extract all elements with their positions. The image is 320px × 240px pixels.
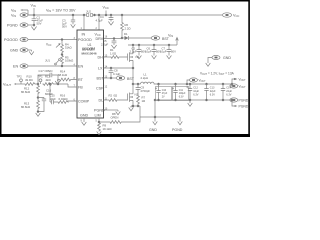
svg-text:6.04kΩ: 6.04kΩ [59,97,68,101]
svg-text:MAX15046: MAX15046 [82,52,97,56]
svg-text:C17: C17 [39,69,45,73]
svg-text:68.1kΩ: 68.1kΩ [58,73,67,77]
svg-text:LX: LX [98,67,103,71]
svg-text:PGOOD: PGOOD [78,38,92,42]
node R4/R5 junction [61,54,63,56]
svg-text:2V: 2V [162,95,165,98]
svg-text:VIN: VIN [11,14,16,19]
ground at GND terminal [29,50,34,55]
capacitor C9 snubber [136,84,141,95]
svg-text:49.9Ω: 49.9Ω [25,78,33,82]
terminal EN left [20,64,77,68]
ground at N2 source [129,106,134,111]
svg-text:10pF: 10pF [50,97,57,101]
box optional C11 [173,87,189,101]
wire DL line [104,99,109,101]
capacitor C13 [206,83,208,85]
svg-text:JU1: JU1 [45,59,50,63]
transistor N1 [128,45,134,68]
node DRV/D1 junction [121,37,123,39]
svg-text:OPEN: OPEN [45,69,53,73]
diode D1 [122,37,125,39]
svg-text:N1: N1 [136,55,140,59]
capacitor C10 [158,83,160,85]
capacitor C1 [32,15,37,25]
svg-text:PGND: PGND [239,105,249,109]
box optional C10 [156,87,172,101]
border frame [1,1,249,136]
svg-text:N2: N2 [135,93,139,97]
svg-text:LIM: LIM [95,114,101,118]
wire LX line [104,67,134,69]
resistor R16 [57,101,77,104]
capacitor C2 [138,44,140,46]
svg-text:6.3V: 6.3V [179,95,184,98]
node VOUT rail end [231,83,233,85]
svg-text:GND: GND [10,49,19,53]
svg-text:TP1: TP1 [38,75,44,79]
terminal VCC top right [222,13,231,17]
wire VOUT rail [157,83,232,85]
test point TP1 [39,79,42,84]
svg-text:VIN: VIN [31,4,36,9]
wire FB pin [68,84,77,87]
svg-text:2.2µF: 2.2µF [101,43,108,47]
resistor R12 [37,84,40,98]
node EN junction [61,65,63,67]
svg-text:IN: IN [82,33,86,37]
capacitor C7 [168,44,170,46]
capacitor C12 [189,83,191,85]
ground below C4 [108,22,113,26]
resistor R4 pullup [61,39,64,54]
node feedback divider junction [37,83,39,85]
resistor R13 [37,98,40,114]
svg-text:OPEN: OPEN [111,115,119,119]
terminal PGND right [230,98,238,102]
resistor R11 [43,83,69,86]
svg-text:50V: 50V [37,22,42,26]
svg-text:1.0Ω: 1.0Ω [110,52,116,56]
svg-text:EN: EN [13,65,18,69]
svg-text:GND: GND [80,114,89,118]
resistor R6 [121,14,123,16]
svg-text:GND: GND [149,128,157,132]
wire GND pin bottom [83,118,85,122]
node IN rail junction [83,14,85,16]
capacitor C4 [110,14,112,16]
svg-text:10µF: 10µF [145,50,152,54]
svg-text:FB: FB [78,86,83,90]
svg-text:PGND: PGND [94,109,105,113]
VIN net flag arrow [176,38,179,46]
svg-text:BST: BST [97,77,105,81]
svg-text:86.6kΩ: 86.6kΩ [21,90,30,94]
svg-text:DL: DL [99,99,104,103]
node VOUT TP junction [186,83,188,85]
net flag oval VOUT mid [187,78,198,84]
svg-text:6.3V: 6.3V [193,93,198,96]
node after JU2 [94,14,96,16]
ground below R13 [36,113,41,116]
border frame bottom thick [0,134,250,137]
wire BST pin [104,77,117,79]
svg-text:RT: RT [78,78,84,82]
node VIN input junction [33,14,35,16]
wire IN pin drop [83,15,85,30]
ground below C3 [71,24,76,27]
ground GND star [153,117,158,125]
svg-text:JU2: JU2 [86,10,91,14]
svg-text:2.2µF: 2.2µF [130,50,137,54]
svg-text:VIN = 18V TO 36V: VIN = 18V TO 36V [46,9,76,14]
snubber node [137,83,139,85]
ground below C5 [111,45,116,49]
svg-text:6.3V: 6.3V [210,93,215,96]
ground below C6 [152,54,157,59]
svg-text:0.1µF: 0.1µF [113,72,120,76]
wire PGND sense arrow [232,100,236,106]
ground at GND jack [206,63,211,66]
wire PGND pin [104,109,119,111]
svg-text:D1: D1 [124,32,128,36]
svg-text:VOUT: VOUT [3,83,12,88]
svg-text:19.1kΩ: 19.1kΩ [103,127,112,131]
resistor R14 RT [58,78,78,81]
terminal PGND left [20,23,28,27]
node VCC label tick [105,14,107,16]
svg-text:VCC: VCC [233,14,239,19]
VCC annotation arrow [56,44,60,47]
capacitor C17 bridge [38,73,58,84]
wire VOUT feedback left [15,83,24,85]
svg-text:51kΩ: 51kΩ [65,46,72,50]
ground below output rail [188,100,193,106]
wire cap-ground rail to star [154,100,156,117]
wire PGND input row [28,24,34,26]
wire VIN rail 2 [128,44,177,46]
wire DRV pin [104,38,123,40]
capacitor C15 [50,100,57,104]
svg-text:2700pF: 2700pF [141,89,151,93]
svg-text:DH: DH [98,56,104,60]
IC U1 MAX15046 body [77,30,104,118]
svg-text:PGND: PGND [239,99,249,103]
wire output ground rail [155,99,232,101]
resistor R7 snubber [137,95,140,106]
terminal GND right mid [208,55,220,63]
wire VIN sense arrow [20,9,22,11]
inductor L1 [133,82,157,84]
svg-text:BST: BST [127,77,135,81]
svg-text:4.7µF: 4.7µF [96,19,103,23]
capacitor C3 [72,14,74,16]
wire VCC pin drop [98,15,100,30]
resistor R1 [110,56,128,59]
capacitor C6 [153,44,155,46]
svg-text:2.2µH: 2.2µH [141,76,149,80]
node BST junction [110,77,112,79]
svg-text:50V: 50V [171,50,176,54]
svg-text:COMP: COMP [78,100,90,104]
node LX y84 [132,67,134,69]
jumper JU2 pads [87,14,89,17]
capacitor C11 [175,83,177,85]
ground PGND star [178,117,183,125]
svg-text:CSP: CSP [96,87,104,91]
svg-text:VIN: VIN [11,9,16,14]
node N1 drain [132,44,134,46]
node R12/R13 junction [37,97,39,99]
ground at PGND pin [116,110,121,115]
svg-text:100kΩ: 100kΩ [65,59,73,63]
svg-text:VIN: VIN [168,34,173,39]
node LIM junction [98,121,100,123]
svg-text:0Ω: 0Ω [114,94,118,98]
transistor N2 [128,84,134,106]
ground at GND pin [82,122,87,125]
svg-text:TP2: TP2 [17,75,23,79]
capacitor C16 [38,98,46,112]
terminal VIN left [20,13,34,17]
wire LIM pin bottom [98,118,100,122]
wire down to star ground [139,106,141,117]
ground below R9 [97,132,102,135]
ground below C1 [31,25,36,30]
jumper JU1 [55,59,61,65]
svg-text:4kΩ: 4kΩ [46,78,51,82]
svg-text:EN: EN [78,65,83,69]
svg-text:PGND: PGND [7,24,18,28]
svg-text:6.3V: 6.3V [226,93,231,96]
node C1/PGND junction [33,24,35,26]
capacitor C14 [222,83,224,85]
terminal GND left [20,48,32,52]
wire VIN top rail [22,10,222,15]
wire N2 source / snubber ground tie [131,105,140,107]
svg-text:1Ω: 1Ω [142,99,146,103]
svg-text:GND: GND [223,56,231,60]
svg-text:PGND: PGND [172,128,183,132]
wire LX vertical to output node [132,68,134,84]
svg-text:R2: R2 [109,94,113,98]
test point TP2 [20,79,23,84]
resistor R10 [24,83,38,86]
resistor R9 [98,122,101,132]
svg-text:50V: 50V [62,25,67,29]
svg-text:10µF: 10µF [160,50,167,54]
capacitor C8 [109,68,114,78]
ground at R14 [55,80,60,85]
node LX/C8 junction [110,67,112,69]
terminal VOUT right [230,84,238,88]
svg-text:86.6kΩ: 86.6kΩ [21,105,30,109]
resistor R2 [108,99,128,102]
ground below C2 [137,54,142,59]
capacitor C5 [113,38,115,40]
net flag oval BST lower [116,76,125,80]
resistor R5 [61,55,64,67]
wire DH line [104,56,111,58]
terminal PGOOD left [20,37,77,41]
svg-text:VCC: VCC [103,6,109,11]
net flag oval BST upper [151,36,160,40]
ground below C7 [167,54,172,59]
svg-text:PGOOD: PGOOD [4,38,18,42]
node comp branch [49,83,51,85]
resistor R8 OPEN [99,117,140,123]
star ground tie wire [140,116,180,118]
svg-text:2.2Ω: 2.2Ω [125,27,131,31]
wire comp branch vertical [49,84,51,102]
wire VOUT sense arrow [232,78,236,84]
